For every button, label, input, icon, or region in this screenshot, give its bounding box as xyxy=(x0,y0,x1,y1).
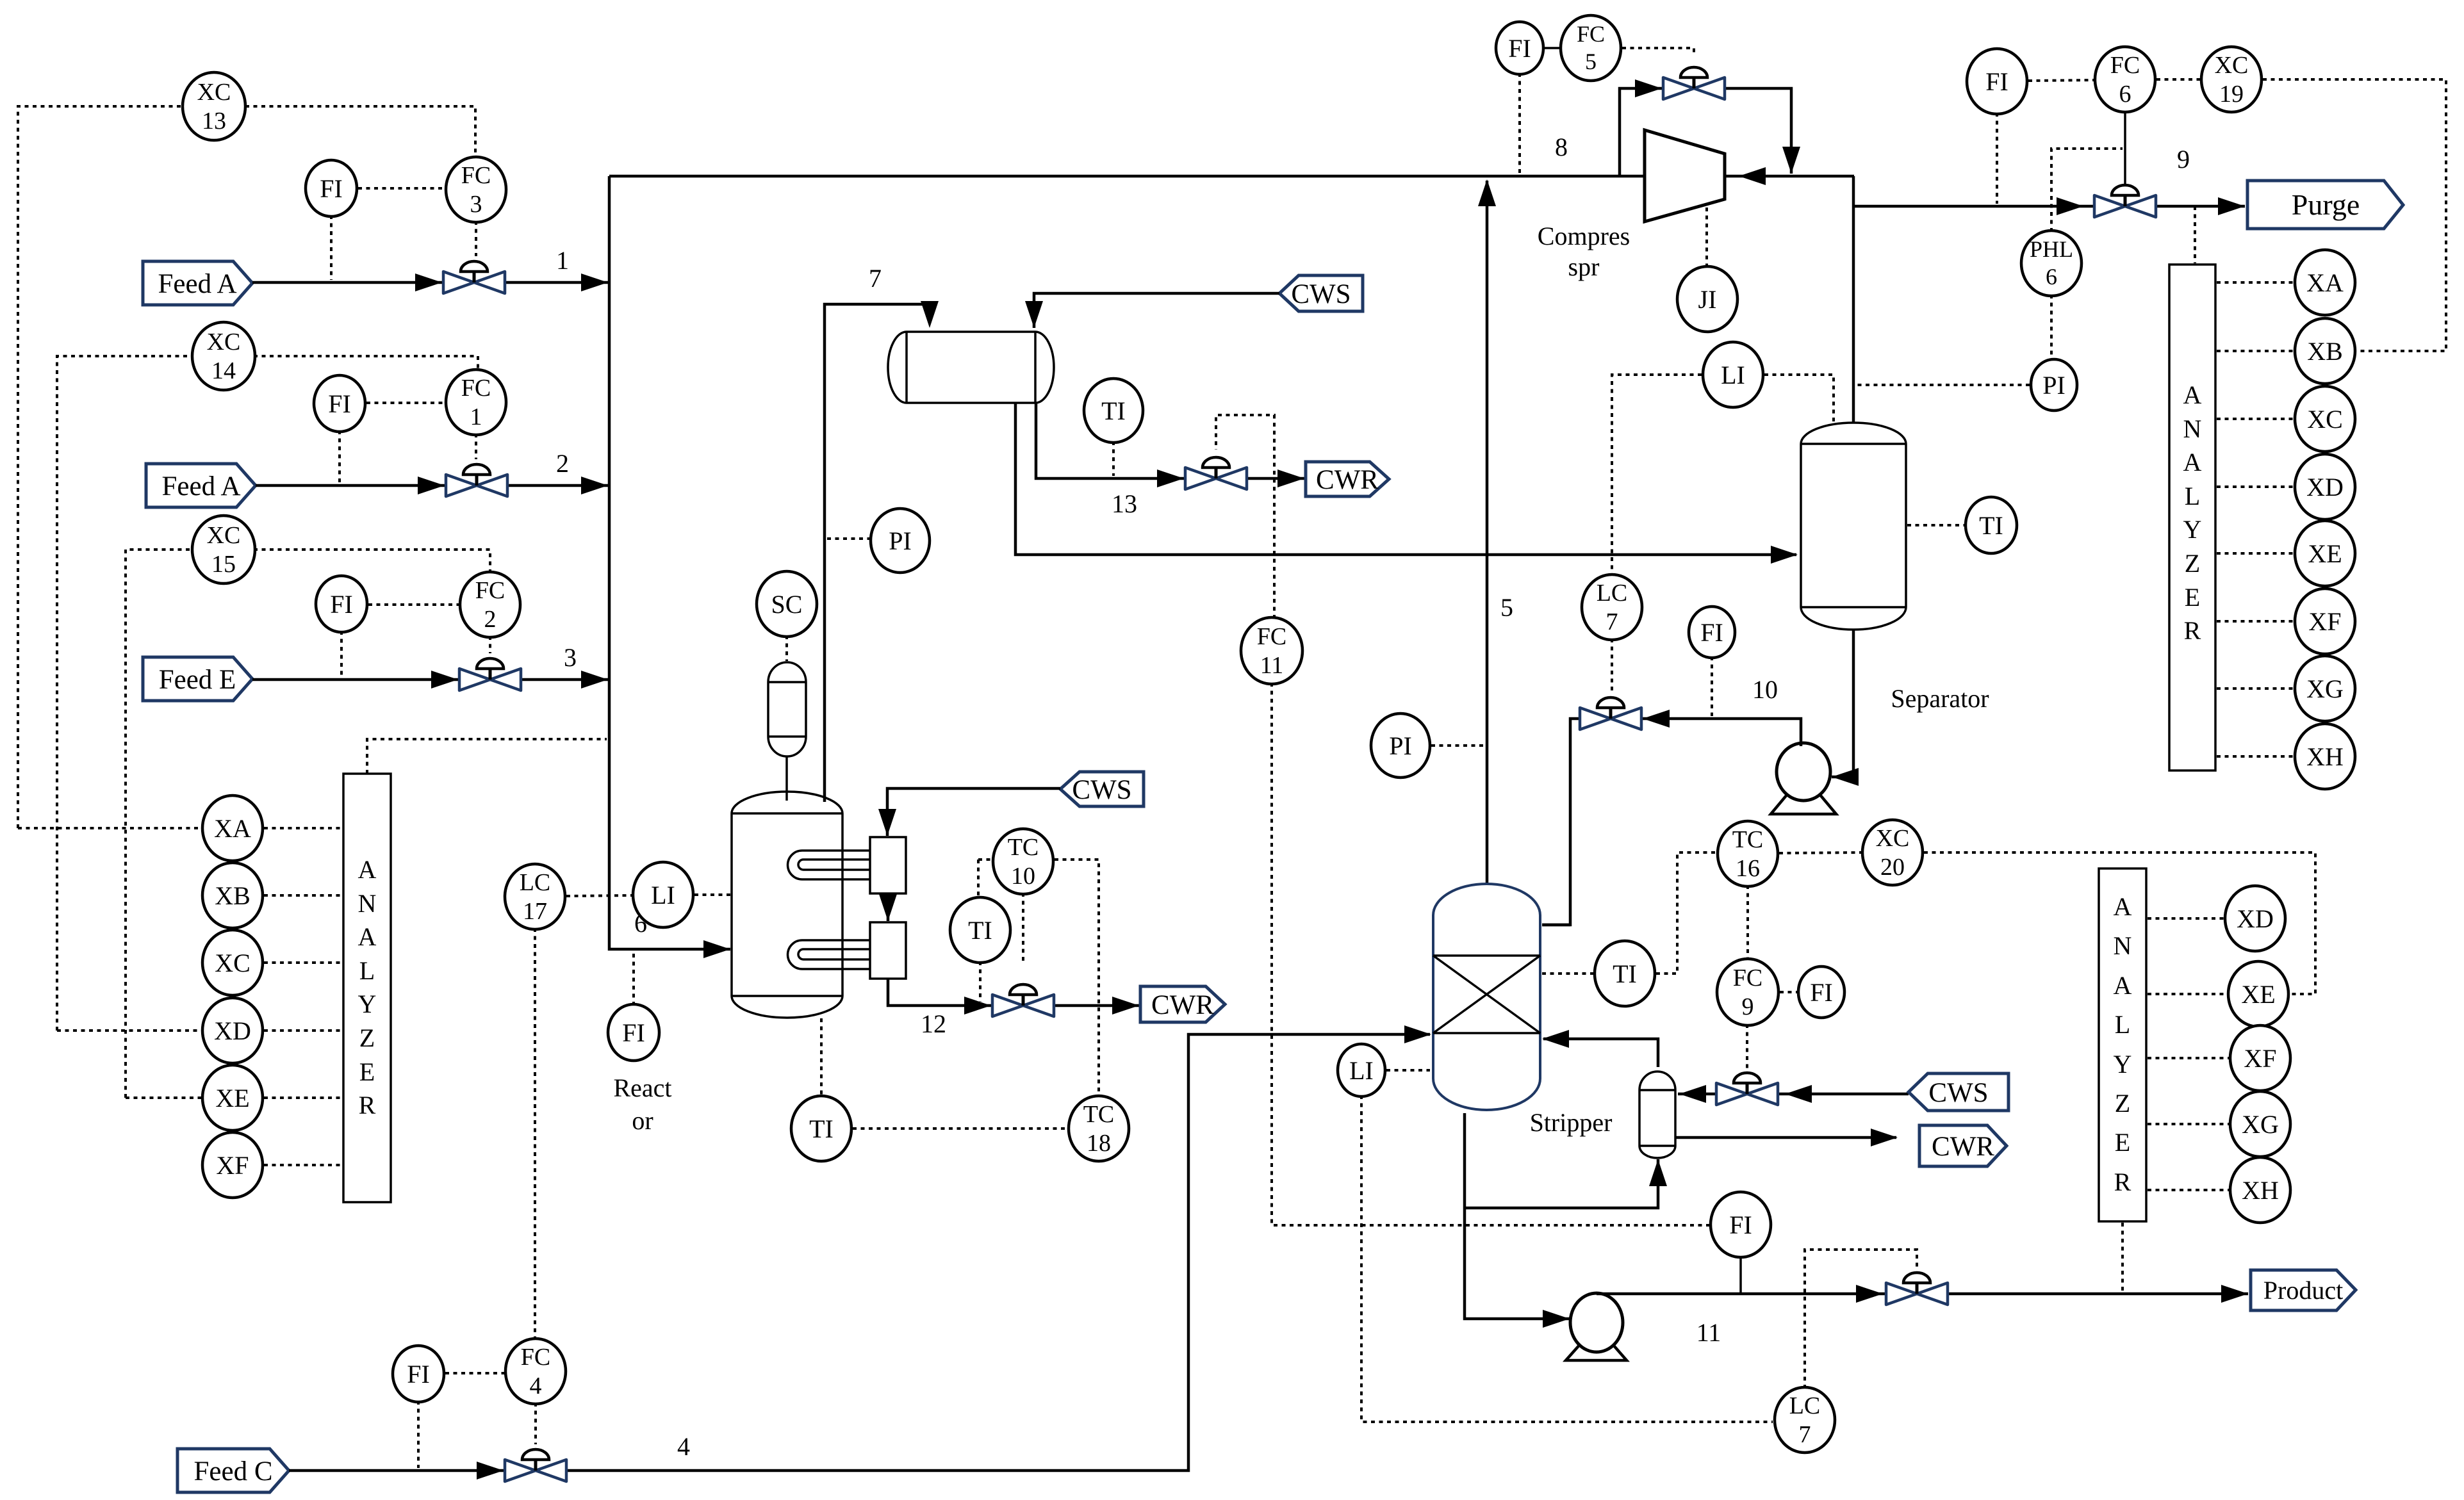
svg-text:TC: TC xyxy=(1008,834,1039,861)
wire XA to XC13 dashed xyxy=(18,827,201,829)
svg-text:XA: XA xyxy=(2306,268,2344,297)
arrow stream 7 into condenser xyxy=(921,301,939,328)
svg-text:3: 3 xyxy=(564,643,577,672)
valve 5 (compressor bypass) xyxy=(1663,67,1725,99)
arrow into CWR (reboiler) xyxy=(1871,1129,1898,1146)
wire CWS into condenser xyxy=(1034,293,1279,328)
controller FC9 xyxy=(1717,959,1778,1025)
wire TI to line 12 dashed xyxy=(979,961,981,1002)
svg-text:TC: TC xyxy=(1732,826,1764,853)
wire FC6 to valve 6 xyxy=(2124,111,2126,188)
svg-text:FC: FC xyxy=(1733,965,1762,991)
wire line 10 into stripper top xyxy=(1542,924,1570,927)
svg-text:L: L xyxy=(2115,1010,2130,1039)
wire XC to analyzer dashed (left) xyxy=(264,961,342,964)
wire compressor suction xyxy=(1726,175,1854,178)
wire FI to line 4 dashed xyxy=(417,1401,420,1468)
svg-text:7: 7 xyxy=(1799,1421,1811,1448)
controller TC10 xyxy=(993,829,1053,894)
svg-text:10: 10 xyxy=(1011,863,1035,890)
wire stripper to TI dashed xyxy=(1542,972,1593,975)
wire XB to analyzer dashed (left) xyxy=(264,894,342,897)
svg-text:A: A xyxy=(2114,892,2132,921)
indicator XE (product) xyxy=(2228,961,2288,1027)
wire XC20 loop dashed (XE) xyxy=(1924,852,2315,994)
svg-text:XF: XF xyxy=(216,1151,249,1180)
controller SC (agitator speed) xyxy=(757,571,817,637)
wire SC to agitator dashed xyxy=(785,635,788,661)
svg-text:7: 7 xyxy=(1606,608,1618,635)
svg-text:13: 13 xyxy=(202,108,226,135)
svg-text:17: 17 xyxy=(523,898,547,925)
svg-text:Feed A: Feed A xyxy=(161,471,240,501)
wire TI to line 13 dashed xyxy=(1112,441,1115,476)
svg-text:LC: LC xyxy=(520,869,551,896)
svg-text:TI: TI xyxy=(809,1114,834,1143)
analyzer box (reactor feed) xyxy=(343,774,391,1202)
arrow purge into valve xyxy=(2057,197,2083,215)
wire PHL6-PI dashed xyxy=(2050,295,2053,361)
indicator TI (separator) xyxy=(1966,497,2017,553)
svg-text:PI: PI xyxy=(2042,371,2066,400)
svg-text:XC: XC xyxy=(197,79,231,106)
indicator PI (stream 7) xyxy=(871,509,930,573)
wire FI recycle dashed xyxy=(1518,73,1521,174)
svg-text:A: A xyxy=(358,922,377,951)
wire purge line 9 xyxy=(1853,205,2245,208)
arrow line 1 into header xyxy=(581,273,608,291)
svg-text:L: L xyxy=(359,956,375,985)
analyzer label ANALYZER (left) xyxy=(358,855,377,1120)
svg-text:CWS: CWS xyxy=(1072,775,1131,805)
svg-text:6: 6 xyxy=(2046,264,2057,289)
svg-text:11: 11 xyxy=(1696,1318,1721,1347)
wire LC7 to valve 11 dashed xyxy=(1805,1250,1917,1389)
svg-text:1: 1 xyxy=(556,246,569,275)
wire LC17-LI dashed xyxy=(566,895,632,896)
svg-text:Feed E: Feed E xyxy=(159,665,236,695)
wire XD to analyzer dashed (left) xyxy=(264,1029,342,1032)
wire reactor feed header xyxy=(609,176,730,949)
svg-text:Feed A: Feed A xyxy=(158,269,236,299)
wire reboiler circulation xyxy=(1465,1159,1658,1208)
svg-text:FI: FI xyxy=(1700,618,1723,647)
wire TC16-XC20 dashed xyxy=(1779,852,1861,853)
analyzer label ANALYZER (purge) xyxy=(2183,380,2202,645)
svg-text:5: 5 xyxy=(1500,593,1513,622)
svg-text:FI: FI xyxy=(622,1018,645,1047)
arrow steam into valve xyxy=(1785,1085,1812,1103)
valve 1 (Feed A) xyxy=(443,261,505,293)
controller XC19 xyxy=(2201,47,2262,112)
svg-text:1: 1 xyxy=(470,404,482,430)
wire compressor bypass xyxy=(1620,88,1791,176)
indicator TI (stripper) xyxy=(1595,941,1655,1006)
svg-text:FC: FC xyxy=(461,162,491,189)
arrow line 13 into CWR xyxy=(1277,469,1304,487)
wire FC1 to valve 2 dashed xyxy=(475,434,477,459)
arrow line 13 into valve xyxy=(1157,469,1184,487)
svg-text:Y: Y xyxy=(2114,1050,2132,1079)
wire condenser to separator xyxy=(1015,403,1796,555)
wire FI to line 1 dashed xyxy=(330,215,333,280)
wire XC15 dashed loop (XE to FC2) xyxy=(126,550,193,1098)
wire XE product analyzer dashed xyxy=(2148,993,2227,995)
arrow into Product xyxy=(2221,1285,2248,1303)
wire TC10 to valve 12 dashed xyxy=(1022,893,1024,965)
reactor agitator shaft xyxy=(785,756,788,801)
indicator PI (stream 5) xyxy=(1371,713,1430,778)
controller LC17 xyxy=(505,864,565,929)
svg-text:Feed C: Feed C xyxy=(193,1456,272,1487)
wire PHL6 dashed up xyxy=(2051,149,2123,232)
wire XB purge analyzer dashed xyxy=(2217,350,2294,352)
indicator XC (purge) xyxy=(2295,386,2355,452)
svg-text:XG: XG xyxy=(2306,674,2344,703)
svg-text:E: E xyxy=(359,1057,375,1086)
svg-text:Z: Z xyxy=(2115,1089,2130,1118)
controller XC13 xyxy=(183,72,245,140)
stream label Feed A (line 2) xyxy=(146,464,256,507)
wire XE to XC15 dashed xyxy=(126,1096,201,1099)
wire TI-TC18 dashed xyxy=(853,1127,1067,1130)
svg-text:XH: XH xyxy=(2242,1176,2279,1205)
indicator FI (line 2) xyxy=(314,375,365,432)
utility label CWS (condenser) xyxy=(1279,275,1363,311)
wire XG product analyzer dashed xyxy=(2148,1123,2229,1125)
wire XD to XC14 dashed xyxy=(57,1029,201,1032)
analyzer label ANALYZER (product) xyxy=(2114,892,2132,1196)
utility label CWR (reactor) xyxy=(1140,986,1225,1022)
svg-text:XC: XC xyxy=(2307,405,2343,434)
svg-text:A: A xyxy=(358,855,377,884)
wire product analyzer sample dashed xyxy=(2121,1223,2124,1291)
wire XE purge analyzer dashed xyxy=(2217,552,2294,555)
svg-text:XC: XC xyxy=(215,949,251,977)
wire CWS to reactor coil xyxy=(887,788,1060,836)
svg-text:15: 15 xyxy=(211,551,236,578)
indicator LI (separator) xyxy=(1703,342,1763,407)
reactor vessel xyxy=(732,792,842,1018)
indicator FI (line 4) xyxy=(393,1346,444,1402)
wire TC10 to TC18 dashed xyxy=(1055,860,1099,1097)
svg-text:Compres: Compres xyxy=(1538,222,1630,250)
arrow into valve 1 xyxy=(415,273,442,291)
svg-text:XE: XE xyxy=(215,1084,249,1113)
wire XD product analyzer dashed xyxy=(2148,917,2224,920)
svg-text:FC: FC xyxy=(461,375,491,402)
indicator XD (reactor feed) xyxy=(202,998,263,1063)
wire stream 5 riser xyxy=(1486,181,1489,884)
arrow stream 5 into line 8 xyxy=(1478,179,1496,206)
svg-text:XB: XB xyxy=(2307,337,2343,366)
wire XF product analyzer dashed xyxy=(2148,1057,2229,1059)
svg-text:A: A xyxy=(2114,971,2132,1000)
svg-text:XH: XH xyxy=(2306,742,2344,771)
stream label Feed E xyxy=(143,657,252,701)
indicator XF (reactor feed) xyxy=(202,1132,263,1198)
wire feed line 3 xyxy=(252,678,609,681)
svg-text:Y: Y xyxy=(2183,515,2202,544)
svg-text:FC: FC xyxy=(521,1344,550,1371)
stripper packing section xyxy=(1433,956,1540,1033)
indicator XE (reactor feed) xyxy=(202,1065,263,1130)
wire line 10 xyxy=(1542,719,1801,925)
arrow into lower cooling box xyxy=(879,894,897,921)
arrow line 12 into CWR xyxy=(1112,997,1139,1015)
svg-text:XF: XF xyxy=(2308,607,2341,636)
arrow CWS into condenser xyxy=(1025,301,1043,328)
svg-text:FC: FC xyxy=(2110,52,2140,79)
wire XC14 dashed loop (XD to FC1) xyxy=(57,356,193,1031)
reactor agitator capsule xyxy=(768,662,806,756)
wire FI-FC4 dashed xyxy=(445,1372,505,1374)
indicator FI (product) xyxy=(1711,1192,1771,1257)
arrow bypass into valve xyxy=(1635,79,1662,97)
svg-text:XE: XE xyxy=(2308,539,2342,568)
wire separator to TI dashed xyxy=(1907,524,1964,526)
svg-text:FC: FC xyxy=(1257,623,1286,650)
svg-text:XE: XE xyxy=(2241,980,2275,1009)
wire LI to reactor dashed xyxy=(694,893,730,896)
svg-text:20: 20 xyxy=(1880,854,1905,881)
wire XH purge analyzer dashed xyxy=(2217,755,2294,758)
svg-text:XD: XD xyxy=(2306,473,2344,501)
wire XG purge analyzer dashed xyxy=(2217,687,2294,690)
svg-text:LI: LI xyxy=(651,881,675,909)
wire feed line 4 xyxy=(289,1034,1430,1471)
svg-text:LI: LI xyxy=(1721,361,1745,389)
controller FC3 xyxy=(446,157,506,222)
product pump xyxy=(1566,1293,1627,1360)
svg-text:XF: XF xyxy=(2244,1044,2276,1073)
svg-text:XB: XB xyxy=(215,881,251,910)
svg-text:spr: spr xyxy=(1568,252,1600,281)
wire FI-FC6 dashed xyxy=(2028,80,2094,81)
svg-text:FI: FI xyxy=(1985,67,2008,96)
indicator FI (recycle) xyxy=(1496,22,1543,74)
wire separator overhead xyxy=(1852,176,1855,427)
svg-text:16: 16 xyxy=(1736,855,1760,882)
svg-text:A: A xyxy=(2183,448,2202,477)
arrow line 2 into header xyxy=(581,477,608,494)
svg-text:XD: XD xyxy=(2237,904,2274,933)
wire FC4 to valve 4 dashed xyxy=(534,1403,537,1444)
indicator XG (product) xyxy=(2230,1091,2290,1157)
reactor cooling box lower xyxy=(870,922,906,979)
wire XC purge analyzer dashed xyxy=(2217,418,2294,420)
wire TI to TC16 dashed xyxy=(1656,852,1716,974)
svg-text:FI: FI xyxy=(1729,1211,1752,1239)
valve 2 (Feed A) xyxy=(446,464,507,496)
stream label Product xyxy=(2251,1270,2356,1310)
separator vessel xyxy=(1801,423,1906,630)
wire TC16 to FC9 dashed xyxy=(1746,885,1749,960)
svg-text:CWR: CWR xyxy=(1316,465,1379,495)
controller FC4 xyxy=(505,1339,566,1404)
wire product line 11 xyxy=(1597,1292,2248,1296)
stream label Feed C xyxy=(177,1449,289,1492)
wire TI line12 dashed up xyxy=(978,858,992,861)
valve 6 (purge) xyxy=(2094,185,2156,217)
arrow line 10 into valve xyxy=(1643,710,1670,728)
wire steam line xyxy=(1678,1093,1909,1096)
svg-text:N: N xyxy=(2183,414,2202,443)
indicator XA (reactor feed) xyxy=(202,795,263,861)
svg-text:FC: FC xyxy=(1577,21,1605,47)
controller FC2 xyxy=(460,572,520,637)
wire FC5 to bypass valve dashed xyxy=(1622,48,1694,56)
valve 9 (steam) xyxy=(1716,1073,1778,1105)
stripper vessel xyxy=(1433,884,1540,1110)
svg-text:18: 18 xyxy=(1087,1130,1111,1157)
indicator XB (purge) xyxy=(2295,318,2355,384)
svg-text:Product: Product xyxy=(2263,1276,2343,1305)
indicator XA (purge) xyxy=(2295,250,2355,315)
controller XC20 xyxy=(1862,820,1923,885)
svg-text:A: A xyxy=(2183,380,2202,409)
arrow into compressor xyxy=(1739,167,1766,185)
controller FC5 xyxy=(1561,15,1621,81)
svg-text:FI: FI xyxy=(1810,978,1833,1007)
controller FC11 xyxy=(1241,617,1302,684)
wire XF purge analyzer dashed xyxy=(2217,620,2294,623)
wire XF to analyzer dashed (left) xyxy=(264,1164,342,1166)
indicator JI (compressor) xyxy=(1677,266,1737,332)
indicator XC (reactor feed) xyxy=(202,930,263,995)
svg-text:9: 9 xyxy=(1742,993,1754,1020)
wire XC19 loop dashed (XB) xyxy=(2263,79,2446,351)
svg-text:PI: PI xyxy=(889,526,912,555)
controller FC6 xyxy=(2095,47,2155,112)
wire FI to line 10 dashed xyxy=(1711,656,1713,716)
wire TI line12 dashed vertical xyxy=(977,860,980,899)
svg-text:FC: FC xyxy=(475,577,505,604)
svg-text:14: 14 xyxy=(211,357,236,384)
wire LC17 to FC4 dashed xyxy=(534,928,536,1339)
svg-text:R: R xyxy=(2114,1168,2131,1196)
wire FI-FC3 dashed xyxy=(358,187,445,190)
svg-text:XC: XC xyxy=(207,522,241,549)
arrow stream 4 into stripper xyxy=(1404,1025,1431,1043)
wire reboiler CWR xyxy=(1675,1136,1896,1139)
svg-text:FI: FI xyxy=(1508,34,1531,63)
svg-text:TI: TI xyxy=(1979,511,2003,540)
wire FI purge dashed xyxy=(1996,113,1998,204)
svg-text:LC: LC xyxy=(1597,580,1628,607)
indicator XH (purge) xyxy=(2295,724,2355,789)
svg-text:LC: LC xyxy=(1789,1392,1821,1419)
wire FI to stream 6 dashed xyxy=(632,952,635,1006)
valve 4 (Feed C) xyxy=(505,1449,566,1481)
wire FC11 to valve 13 dashed xyxy=(1216,415,1274,619)
arrow into valve 2 xyxy=(418,477,445,494)
wire stripper bottoms xyxy=(1465,1113,1570,1319)
wire LI to separator dashed xyxy=(1764,375,1834,425)
analyzer box (purge) xyxy=(2169,265,2215,770)
utility label CWS (reboiler) xyxy=(1909,1073,2008,1111)
arrow product into valve xyxy=(1856,1285,1883,1303)
reboiler vessel xyxy=(1639,1072,1675,1158)
svg-text:CWR: CWR xyxy=(1932,1132,1994,1162)
arrow into separator xyxy=(1771,546,1798,564)
svg-text:N: N xyxy=(2114,931,2132,960)
wire FC2 to valve 3 dashed xyxy=(489,636,491,653)
svg-text:CWS: CWS xyxy=(1928,1078,1988,1108)
svg-text:N: N xyxy=(358,889,377,918)
arrow vapor into stripper xyxy=(1542,1030,1569,1048)
indicator FI (line 3) xyxy=(316,576,367,632)
wire FC3 to valve 1 dashed xyxy=(475,221,477,256)
svg-text:Z: Z xyxy=(2185,549,2200,578)
valve 10 (separator underflow) xyxy=(1580,697,1641,730)
svg-text:JI: JI xyxy=(1698,285,1717,314)
indicator FI (purge) xyxy=(1967,49,2027,114)
stream label Feed A (line 1) xyxy=(143,261,252,305)
svg-text:PI: PI xyxy=(1389,731,1412,760)
stream label Purge xyxy=(2247,181,2403,229)
analyzer box (product) xyxy=(2099,868,2146,1221)
svg-text:FI: FI xyxy=(320,174,343,203)
utility label CWR (line 13) xyxy=(1306,462,1389,496)
wire XE to analyzer dashed (left) xyxy=(264,1096,342,1099)
controller TC16 xyxy=(1718,821,1778,886)
utility label CWR (reboiler) xyxy=(1919,1125,2007,1166)
condenser vessel xyxy=(888,332,1054,403)
svg-text:4: 4 xyxy=(677,1432,690,1461)
svg-text:XG: XG xyxy=(2242,1110,2279,1139)
svg-text:L: L xyxy=(2185,482,2200,510)
indicator XF (product) xyxy=(2230,1025,2290,1091)
indicator XD (purge) xyxy=(2295,454,2355,519)
wire FI-FC5 link xyxy=(1543,47,1561,49)
arrow bypass return xyxy=(1782,147,1800,174)
wire PI to stream 7 dashed xyxy=(827,537,869,540)
valve 3 (Feed E) xyxy=(459,658,521,690)
wire reactor TI dashed xyxy=(820,1018,823,1097)
controller TC18 xyxy=(1069,1096,1129,1161)
reactor coil lower xyxy=(788,940,870,969)
svg-text:13: 13 xyxy=(1112,489,1137,518)
controller XC15 xyxy=(192,516,255,583)
wire FI to product line xyxy=(1739,1256,1742,1294)
indicator XD (product) xyxy=(2225,886,2285,951)
wire FC6-XC19 dashed xyxy=(2156,78,2200,81)
svg-text:10: 10 xyxy=(1752,675,1778,704)
svg-text:React: React xyxy=(613,1073,671,1102)
wire XC13 to FC3 dashed xyxy=(245,106,475,158)
svg-text:9: 9 xyxy=(2177,145,2190,174)
wire XC14 to FC1 dashed xyxy=(254,356,478,370)
svg-text:TI: TI xyxy=(968,916,992,945)
svg-text:SC: SC xyxy=(771,590,803,619)
wire LI to stripper dashed xyxy=(1386,1069,1430,1072)
wire LI to LC7 dashed (product) xyxy=(1361,1095,1773,1422)
svg-text:XD: XD xyxy=(214,1016,251,1045)
svg-text:FI: FI xyxy=(407,1360,430,1389)
indicator FI (stream 6) xyxy=(608,1004,659,1061)
svg-text:Z: Z xyxy=(359,1023,375,1052)
svg-text:5: 5 xyxy=(1585,49,1597,74)
svg-text:PHL: PHL xyxy=(2030,236,2073,262)
svg-text:CWR: CWR xyxy=(1151,990,1214,1020)
indicator FI (line 1) xyxy=(306,160,357,216)
separator pump xyxy=(1771,743,1836,814)
wire LC7 to valve 10 dashed xyxy=(1611,639,1613,691)
svg-text:FI: FI xyxy=(328,389,351,418)
arrow into valve 3 xyxy=(431,671,458,689)
indicator XB (reactor feed) xyxy=(202,863,263,928)
